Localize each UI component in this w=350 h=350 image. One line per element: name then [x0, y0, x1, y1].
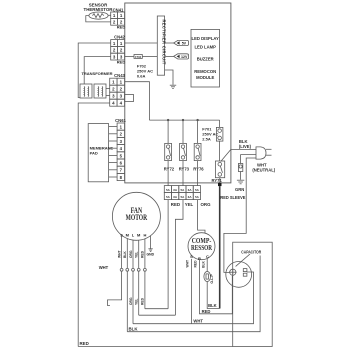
wire F701 to RY71 [219, 141, 221, 161]
wire link fan ORG long to capacitor [133, 272, 254, 324]
svg-text:RY76: RY76 [193, 167, 204, 172]
fan wire RED upper [144, 239, 146, 269]
compressor wire labels vertical [185, 260, 205, 268]
relay RY73 [179, 143, 190, 171]
svg-text:CN61: CN61 [115, 118, 126, 123]
svg-text:RECTIFIER CIRCUIT: RECTIFIER CIRCUIT [161, 20, 166, 65]
svg-text:MOTOR: MOTOR [126, 213, 148, 222]
connector CN41 [111, 7, 126, 29]
thermistor TH1 [89, 12, 108, 19]
OLP overload protector [204, 272, 214, 284]
compressor C wire below OLP to red sleeve junction [207, 282, 220, 309]
wire CN43 pin1 to relay bus [125, 82, 150, 120]
capacitor pointer line [236, 254, 250, 266]
wire BLK live to plug [231, 148, 256, 150]
compressor M2 [188, 233, 215, 260]
PCB main board outline [125, 3, 231, 183]
svg-text:S: S [190, 254, 193, 259]
fan wire color labels upper [117, 250, 144, 258]
relay RY71 [212, 161, 225, 183]
svg-text:MODULE: MODULE [196, 75, 214, 80]
node bus-RY76 [196, 119, 198, 121]
svg-text:RED: RED [141, 297, 145, 305]
fan wire ORG upper [132, 240, 134, 268]
svg-text:O.L.P: O.L.P [210, 274, 214, 284]
svg-text:THERMISTOR: THERMISTOR [84, 7, 114, 12]
connector CN61 [115, 118, 126, 181]
capacitor body [226, 262, 252, 288]
capacitor box [233, 242, 273, 346]
wire thermistor loop to CN41 pin2 [86, 16, 111, 22]
svg-text:(LIVE): (LIVE) [239, 144, 252, 149]
svg-text:5V: 5V [182, 42, 187, 46]
svg-text:LED LAMP: LED LAMP [194, 44, 216, 49]
wire rectifier to +12V tag [165, 55, 174, 57]
svg-text:CAPACITOR: CAPACITOR [241, 250, 262, 255]
svg-text:RED: RED [141, 250, 145, 258]
svg-text:BUZZER: BUZZER [197, 57, 214, 62]
compressor R wire [200, 260, 233, 314]
LED display module box [191, 29, 220, 87]
sensor thermistor label [84, 2, 114, 12]
relay supply bus [149, 119, 219, 121]
wire CN43 pin4 red wire down left side [78, 103, 110, 347]
svg-text:H: H [143, 233, 146, 238]
svg-text:RED: RED [202, 309, 211, 314]
svg-text:REMOCON: REMOCON [194, 69, 216, 74]
svg-text:C: C [206, 254, 209, 259]
membrane pad [88, 124, 113, 182]
svg-text:BLK: BLK [129, 326, 139, 331]
svg-text:WHT: WHT [185, 260, 189, 268]
earth terminal [238, 164, 242, 172]
compressor terminal letters [190, 254, 209, 261]
svg-text:RED: RED [117, 60, 126, 65]
wire WHT neutral from plug down to capacitor [224, 158, 256, 272]
connector CN43 [110, 73, 126, 106]
relay RY72 [164, 143, 175, 171]
svg-text:ORG: ORG [201, 202, 212, 207]
fan wire ORG lower [132, 271, 134, 324]
svg-text:CN41: CN41 [113, 7, 124, 12]
svg-text:WHT: WHT [117, 250, 121, 258]
svg-text:0.6A: 0.6A [137, 74, 146, 79]
wire CN42 pin3 to transformer primary top [84, 57, 111, 84]
svg-text:RESSOR: RESSOR [191, 244, 213, 252]
wire CN42 pin1 to transformer primary left [78, 43, 111, 98]
svg-text:WHT: WHT [99, 265, 109, 270]
svg-text:BLK: BLK [123, 251, 127, 258]
capacitor plus terminal [229, 268, 237, 276]
power plug P1 [256, 147, 272, 159]
red sleeve bold wire down [219, 186, 221, 308]
svg-text:RY72: RY72 [164, 167, 175, 172]
svg-text:GND: GND [147, 253, 155, 257]
fan motor M1 [112, 192, 160, 240]
wire rectifier to ground [165, 70, 173, 85]
label BLK LIVE [239, 139, 252, 149]
relay RY76 [193, 143, 204, 171]
wire terminal block col1 down to fan red link [167, 200, 169, 309]
svg-text:CN42: CN42 [114, 34, 125, 39]
node bus-RY72 [167, 119, 169, 121]
svg-text:RY73: RY73 [179, 167, 190, 172]
svg-text:GRN: GRN [235, 187, 244, 192]
svg-text:F702: F702 [135, 55, 141, 59]
compressor S wire [191, 259, 193, 324]
wire red bottom line [78, 346, 233, 348]
wire RY71 to board edge [219, 178, 221, 183]
fuse F701 [216, 127, 223, 141]
terminal block TB1 [164, 186, 200, 200]
fan wire WHT stub lower [108, 271, 122, 305]
wire terminal block col3 jog down [175, 200, 183, 316]
wire transformer secondary to CN43 pin3 [106, 95, 110, 97]
svg-text:YEL: YEL [135, 299, 139, 305]
wire RY72 to terminal block [167, 161, 169, 186]
jumper stub on CN43 pins 3-4 [125, 95, 134, 102]
fan ground symbol [148, 249, 152, 252]
wire CN42 pin3 to fuse F702 [125, 55, 134, 57]
svg-text:WHT: WHT [193, 318, 203, 323]
+12V output tag [174, 54, 189, 59]
node bus-RY73 [182, 119, 184, 121]
svg-text:12V: 12V [181, 55, 188, 59]
wire CN42 pin1 to rectifier [125, 42, 158, 44]
fuse F702 [134, 55, 142, 59]
svg-text:ORG: ORG [129, 250, 133, 258]
wire RY76 to terminal block [197, 161, 199, 186]
membrane pad stub wires [109, 127, 118, 177]
fan wire YEL upper [138, 240, 140, 268]
wire plug green to earth terminal [241, 155, 256, 164]
svg-text:BLK: BLK [208, 303, 217, 308]
fan wire YEL lower [138, 271, 140, 315]
svg-text:RED: RED [171, 202, 180, 207]
wire thermistor to CN41 pin1 [108, 14, 111, 16]
capacitor right terminal [243, 269, 247, 277]
svg-text:TRANSFORMER: TRANSFORMER [81, 71, 112, 76]
compressor C wire to OLP [206, 258, 208, 271]
fan wire RED lower [144, 271, 146, 309]
svg-text:YEL: YEL [135, 252, 139, 258]
node junction square red sleeve [218, 183, 222, 187]
wire bus to RY73 [182, 120, 184, 143]
svg-text:BLK: BLK [201, 261, 205, 268]
svg-text:RED: RED [193, 260, 197, 268]
svg-text:(NEUTRAL): (NEUTRAL) [252, 168, 275, 173]
ground under rectifier [170, 85, 176, 88]
fan terminal letters [120, 233, 146, 238]
fan wire WHT upper [121, 235, 123, 268]
wire BLK bus fan to capacitor [127, 256, 260, 332]
wire link fan RED to RY72 [145, 308, 168, 310]
svg-text:PAD: PAD [90, 151, 98, 156]
rectifier circuit U72 [157, 16, 166, 75]
svg-text:RED: RED [117, 25, 126, 30]
fan wire BLK upper [126, 239, 128, 269]
wire bus to fuse F701 [219, 120, 221, 127]
svg-text:RED: RED [80, 341, 89, 346]
fan wire BLK lower [126, 271, 128, 332]
wire transformer secondary to CN43 pin2 [106, 88, 110, 90]
label WHT NEUTRAL [252, 163, 275, 173]
transformer T1 [80, 71, 113, 98]
wire terminal block col5 to compressor top [198, 200, 205, 233]
svg-text:RY71: RY71 [212, 178, 223, 183]
fan wire color labels lower [129, 297, 145, 305]
svg-text:ORG: ORG [129, 297, 133, 305]
ground GRN [235, 180, 244, 192]
wire F702 to rectifier [142, 55, 157, 57]
wire RY73 to terminal block [182, 161, 184, 186]
wire plug live diagonal to RY71 [221, 149, 231, 161]
wire rectifier to +5V tag [165, 42, 174, 44]
F702 value label [137, 64, 153, 79]
svg-text:YEL: YEL [185, 202, 194, 207]
wire bus to RY76 [197, 120, 199, 143]
svg-text:CN43: CN43 [114, 73, 125, 78]
svg-text:LED DISPLAY: LED DISPLAY [192, 36, 220, 41]
wire bus to RY72 [167, 120, 169, 143]
svg-text:RED SLEEVE: RED SLEEVE [220, 195, 246, 201]
+5V output tag [174, 40, 189, 45]
fan connector pin circles [120, 268, 146, 271]
wire earth terminal to ground [240, 172, 242, 180]
F701 value label [202, 126, 218, 141]
fan ground stub wire [150, 236, 152, 249]
wire link fan YEL to RY73 [139, 314, 176, 316]
svg-text:2.5A: 2.5A [202, 136, 211, 141]
connector CN42 [111, 34, 126, 64]
